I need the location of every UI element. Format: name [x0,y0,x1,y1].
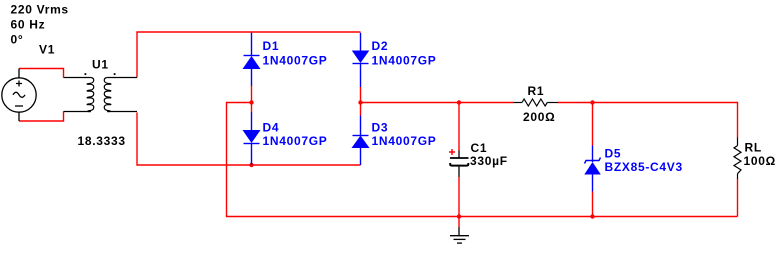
svg-text:18.3333: 18.3333 [78,134,126,148]
svg-text:U1: U1 [92,57,109,71]
svg-text:330µF: 330µF [470,154,508,168]
svg-text:1N4007GP: 1N4007GP [372,134,437,148]
svg-text:0°: 0° [11,32,24,46]
svg-text:200Ω: 200Ω [523,110,555,124]
svg-text:R1: R1 [528,84,545,98]
svg-text:D2: D2 [372,39,389,53]
svg-text:D4: D4 [263,120,280,134]
svg-text:D1: D1 [263,39,280,53]
svg-text:D3: D3 [372,120,389,134]
svg-text:V1: V1 [39,42,55,56]
svg-text:1N4007GP: 1N4007GP [263,134,328,148]
svg-text:1N4007GP: 1N4007GP [263,53,328,67]
svg-text:C1: C1 [471,141,488,155]
svg-text:60 Hz: 60 Hz [11,17,46,31]
svg-text:BZX85-C4V3: BZX85-C4V3 [605,160,683,174]
svg-text:1N4007GP: 1N4007GP [372,53,437,67]
svg-text:RL: RL [745,140,762,154]
svg-text:100Ω: 100Ω [744,154,776,168]
svg-text:D5: D5 [605,146,622,160]
svg-text:220 Vrms: 220 Vrms [11,2,69,16]
